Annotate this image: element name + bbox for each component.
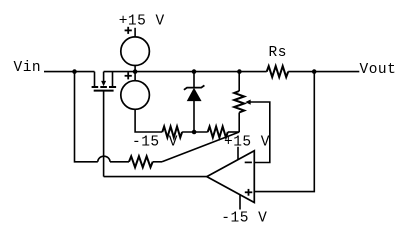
wire opamp negative supply pin [239, 195, 241, 210]
svg-text:-15 V: -15 V [132, 135, 178, 151]
potentiometer wiper arrow [245, 100, 270, 163]
transistor Q1 MOSFET [92, 72, 117, 91]
wire pot bottom lead [238, 113, 240, 133]
wire hop to R3 [110, 161, 129, 163]
junction dot rail at feedback tap [72, 69, 77, 74]
junction dot zener bottom [192, 130, 197, 135]
junction dot Vout sense [312, 69, 317, 74]
voltage source V2 [121, 81, 150, 110]
wire feedback tap down [75, 72, 98, 162]
wire Vout sense to opamp plus input [254, 72, 314, 192]
plus mark V1 positive terminal [125, 27, 132, 34]
wire Q1 gate lead down [103, 91, 105, 177]
wire R2 to pot bottom node [228, 131, 239, 133]
svg-text:+15 V: +15 V [224, 135, 270, 151]
junction dot pot top [237, 69, 242, 74]
resistor R1 [162, 127, 182, 138]
svg-text:Rs: Rs [269, 45, 287, 61]
resistor Rs [267, 66, 289, 77]
resistor R3 feedback [129, 156, 153, 167]
wire main rail right (Q1 drain to Rs) [104, 71, 267, 73]
plus mark V2 positive terminal [125, 72, 132, 79]
wire V2 bottom down and right [135, 109, 162, 132]
junction dot zener top [192, 69, 197, 74]
wire opamp positive supply pin [237, 147, 239, 160]
wire rail to V2 top [134, 72, 136, 81]
voltage source V1 [121, 37, 150, 66]
wire V1 bottom to rail [134, 66, 136, 72]
wire diagonal R3 to pot bottom node [162, 132, 239, 162]
junction dot rail at sources [133, 69, 138, 74]
resistor R2 [208, 127, 228, 138]
wire hop over gate line [98, 156, 110, 162]
op-amp U1 [207, 151, 255, 203]
svg-text:+15 V: +15 V [119, 14, 165, 30]
svg-text:Vin: Vin [14, 60, 42, 76]
potentiometer P1 body [234, 91, 244, 113]
svg-text:-15 V: -15 V [221, 211, 267, 227]
op-amp plus label [245, 189, 253, 196]
wire pot top lead [238, 72, 240, 91]
wire rail after Rs to Vout [288, 71, 359, 73]
op-amp minus label [245, 161, 252, 163]
wire main rail left (Vin to Q1 source) [44, 71, 95, 73]
wire R3 to diagonal [153, 161, 162, 163]
zener diode D1 [184, 72, 205, 132]
svg-text:Vout: Vout [360, 62, 397, 78]
wire V1 top stub [134, 28, 136, 37]
wire R1 to R2 [182, 131, 208, 133]
wire op-amp output to gate [104, 176, 207, 178]
